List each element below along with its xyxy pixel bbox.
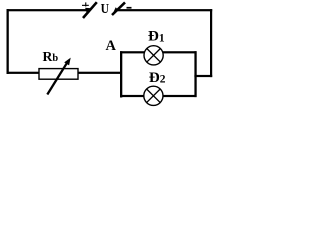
wire top-left segment <box>7 9 88 11</box>
- polarity label <box>127 7 132 9</box>
+ polarity label <box>82 2 89 6</box>
rheostat Rb body <box>39 69 78 80</box>
wire bottom branch <box>120 95 197 97</box>
wire top-right segment <box>117 9 212 11</box>
wire connector horizontal <box>194 75 212 77</box>
left terminal arrowhead <box>85 8 91 12</box>
wire branch right vertical <box>194 51 196 97</box>
right terminal arrowhead <box>113 7 119 12</box>
left terminal slash <box>83 2 97 18</box>
wire left vertical <box>7 9 9 74</box>
svg-text:U: U <box>101 1 109 16</box>
lamp D2 <box>144 86 163 105</box>
wire branch left vertical <box>120 51 122 97</box>
wire right vertical <box>210 9 212 77</box>
svg-text:A: A <box>106 38 117 54</box>
wire top branch <box>120 51 197 53</box>
wire middle horizontal left of rheostat <box>7 72 41 74</box>
right terminal slash <box>112 2 125 15</box>
rheostat arrow <box>47 58 70 95</box>
wire middle horizontal right of rheostat <box>77 72 122 74</box>
lamp D1 <box>144 46 163 65</box>
